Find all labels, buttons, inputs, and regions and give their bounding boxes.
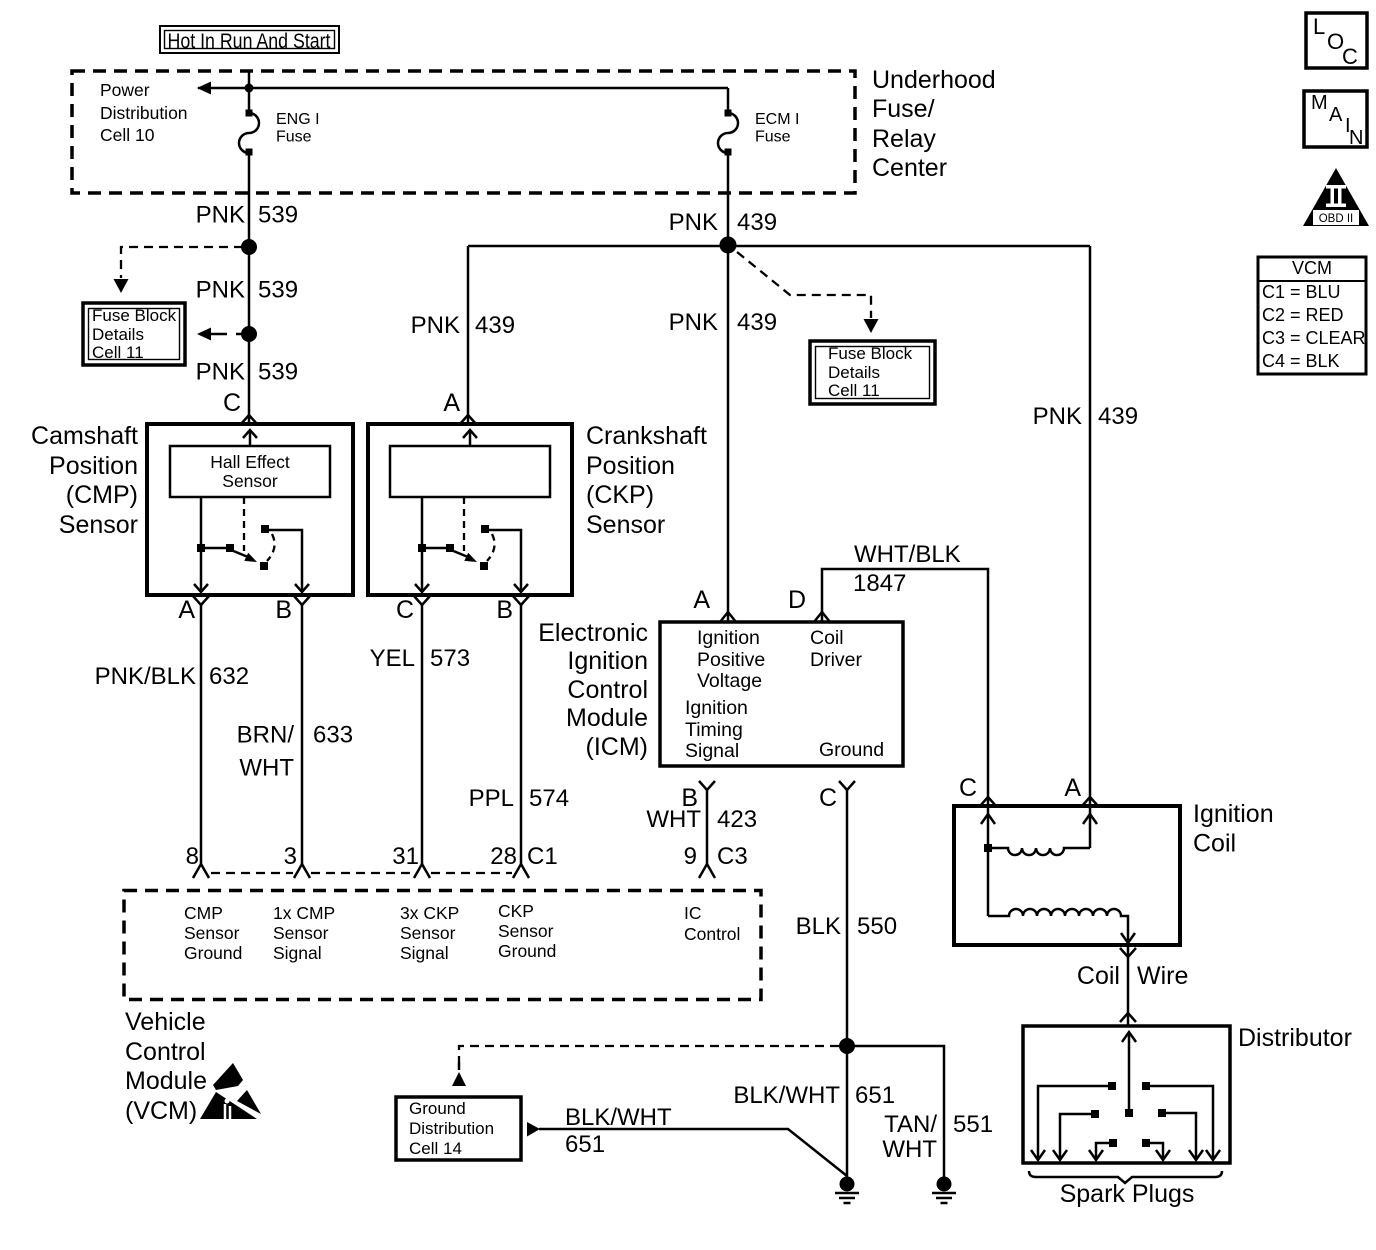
coil secondary winding — [988, 909, 1128, 941]
svg-text:PNK: PNK — [196, 277, 245, 304]
svg-text:Cell 14: Cell 14 — [409, 1139, 462, 1158]
CKP switch contacts — [418, 525, 495, 570]
svg-text:C1: C1 — [527, 843, 558, 870]
svg-text:Signal: Signal — [400, 943, 449, 963]
svg-text:439: 439 — [1098, 403, 1138, 430]
wire WHT 423 ICM B to VCM pin 9 — [706, 790, 709, 864]
svg-text:Sensor: Sensor — [273, 923, 329, 943]
spark plugs brace — [1029, 1171, 1222, 1183]
svg-text:CKP: CKP — [498, 901, 534, 921]
svg-text:BLK/WHT: BLK/WHT — [565, 1104, 672, 1131]
svg-text:PNK: PNK — [669, 209, 718, 236]
svg-text:Voltage: Voltage — [697, 670, 762, 692]
label Power Distribution Cell 10 — [100, 80, 188, 145]
svg-text:Details: Details — [828, 363, 880, 382]
wire ECM fuse down to ICM terminal A — [727, 155, 730, 622]
svg-text:Sensor: Sensor — [222, 471, 278, 491]
distributor rotor feed arrow — [1122, 1032, 1136, 1117]
label PNK 539 (3) — [196, 359, 298, 386]
distributor cap contact lower-left — [1089, 1139, 1117, 1160]
svg-text:439: 439 — [737, 209, 777, 236]
connector chevron pin 8 — [193, 864, 209, 878]
coil secondary output arrow — [1121, 933, 1135, 943]
svg-text:539: 539 — [258, 359, 298, 386]
wire drop to CKP sensor — [467, 246, 470, 424]
wire dashed branch to fuse block details (right) — [737, 252, 879, 333]
svg-text:1847: 1847 — [853, 570, 906, 597]
svg-text:Sensor: Sensor — [184, 923, 240, 943]
ICM pin function labels — [685, 627, 884, 762]
CKP pickup box — [390, 446, 550, 497]
connector chevron at VCM pin 9 — [699, 864, 715, 878]
svg-text:(CKP): (CKP) — [586, 481, 654, 509]
label Crankshaft Position (CKP) Sensor — [586, 422, 707, 539]
svg-text:PNK: PNK — [411, 312, 460, 339]
svg-text:Ground: Ground — [819, 739, 884, 761]
distributor cap contact upper-right — [1142, 1082, 1220, 1160]
connector chevron B — [294, 596, 310, 605]
label Vehicle Control Module (VCM) — [125, 1008, 207, 1125]
svg-text:439: 439 — [737, 309, 777, 336]
wire PNK 539 ENG fuse to CMP sensor — [248, 155, 251, 424]
label BLK 550 — [796, 913, 897, 940]
connector chevron C at CMP — [241, 415, 257, 424]
connector chevron at distributor — [1120, 1013, 1136, 1022]
label TAN/WHT 551 — [882, 1111, 993, 1163]
fuse block details cell 11 box (right) — [810, 341, 935, 404]
svg-text:Spark Plugs: Spark Plugs — [1060, 1180, 1195, 1208]
svg-text:Center: Center — [872, 154, 947, 182]
arrow from ground distribution box — [527, 1122, 540, 1137]
wire CKP C to pin 31 — [421, 605, 424, 864]
svg-text:PNK: PNK — [196, 202, 245, 229]
label PPL 574 — [469, 785, 569, 812]
svg-text:Sensor: Sensor — [59, 511, 138, 539]
svg-text:8: 8 — [186, 843, 199, 870]
label WHT/BLK 1847 — [853, 541, 961, 597]
node junction PNK539 upper — [241, 239, 257, 255]
connector chevron A — [193, 596, 209, 605]
svg-text:28: 28 — [490, 843, 517, 870]
svg-text:N: N — [1349, 127, 1363, 149]
svg-text:539: 539 — [258, 277, 298, 304]
svg-text:1x CMP: 1x CMP — [273, 903, 335, 923]
coil C internal arrow — [981, 808, 995, 916]
svg-text:VCM: VCM — [1292, 258, 1332, 278]
distributor cap contact upper-left — [1031, 1082, 1116, 1160]
wire drop to ECM fuse — [727, 88, 730, 110]
svg-text:ECM I: ECM I — [755, 111, 799, 128]
svg-text:Fuse: Fuse — [755, 129, 791, 146]
connector chevron D at ICM — [814, 612, 830, 622]
connector chevron pin 3 — [294, 864, 310, 878]
svg-text:Ground: Ground — [184, 943, 242, 963]
svg-text:Underhood: Underhood — [872, 66, 996, 94]
svg-text:Sensor: Sensor — [400, 923, 456, 943]
connector chevron C — [414, 596, 430, 605]
svg-text:Power: Power — [100, 80, 150, 100]
svg-text:Control: Control — [125, 1038, 206, 1066]
svg-text:Driver: Driver — [810, 649, 863, 671]
node coil primary tap — [984, 844, 992, 852]
svg-text:573: 573 — [430, 645, 470, 672]
svg-text:Electronic: Electronic — [538, 619, 648, 647]
svg-text:31: 31 — [392, 843, 419, 870]
CMP internal wire B — [269, 530, 309, 592]
ground symbol G103 — [835, 1177, 859, 1204]
connector chevron A at ICM — [720, 612, 736, 622]
svg-text:(CMP): (CMP) — [66, 481, 138, 509]
label Coil Wire — [1077, 962, 1188, 990]
svg-text:C4 = BLK: C4 = BLK — [1262, 351, 1340, 371]
label BLK/WHT 651 (upper) — [733, 1082, 895, 1109]
label PNK 539 (2) — [196, 277, 298, 304]
distributor cap contact lower-right — [1142, 1139, 1170, 1160]
svg-text:Sensor: Sensor — [498, 921, 554, 941]
wire feed drop to ENG fuse — [248, 71, 251, 110]
wire BLK 550 ICM C to ground — [846, 790, 849, 1178]
connector chevron C below ICM — [839, 781, 855, 790]
distributor box — [1023, 1026, 1230, 1163]
node top bus / ENG drop — [245, 84, 254, 93]
CMP switch contacts — [197, 525, 275, 570]
wire CMP B to pin 3 — [301, 605, 304, 864]
svg-text:651: 651 — [565, 1131, 605, 1158]
underhood fuse/relay center dashed box — [72, 71, 855, 193]
hall effect sensor box — [170, 446, 330, 497]
connector chevron B2 — [513, 596, 529, 605]
svg-text:C3 = CLEAR: C3 = CLEAR — [1262, 328, 1366, 348]
svg-text:YEL: YEL — [370, 645, 415, 672]
label PNK 439 (CKP drop) — [411, 312, 515, 339]
svg-text:551: 551 — [953, 1111, 993, 1138]
svg-text:Details: Details — [92, 325, 144, 344]
LOC legend box — [1306, 13, 1367, 69]
CMP sensor box — [147, 424, 353, 595]
svg-text:Ignition: Ignition — [697, 627, 760, 649]
svg-text:Cell 11: Cell 11 — [92, 343, 144, 362]
svg-text:Crankshaft: Crankshaft — [586, 422, 707, 450]
fuse ECM I — [718, 110, 799, 156]
svg-text:Coil: Coil — [1193, 830, 1236, 858]
svg-text:L: L — [1313, 14, 1325, 39]
svg-text:C3: C3 — [717, 843, 748, 870]
label PNK 439 (ICM drop) — [669, 309, 777, 336]
wire dashed branch to fuse block details (left) — [114, 247, 244, 293]
svg-text:WHT: WHT — [239, 755, 294, 782]
fuse ENG I — [239, 110, 320, 156]
VCM dashed box — [124, 891, 761, 1000]
CKP sensor box — [368, 424, 572, 595]
label PNK/BLK 632 — [95, 663, 249, 690]
svg-text:633: 633 — [313, 722, 353, 749]
svg-text:PNK: PNK — [669, 309, 718, 336]
CMP supply arrow inside — [243, 430, 257, 446]
node junction PNK539 lower — [241, 326, 257, 342]
label BLK/WHT 651 (lower) — [565, 1104, 672, 1158]
svg-text:Hall Effect: Hall Effect — [210, 452, 290, 472]
fuse block details cell 11 box (left) — [83, 303, 185, 365]
wire coil to distributor — [1127, 945, 1130, 1026]
svg-text:Coil: Coil — [810, 627, 844, 649]
svg-text:Module: Module — [566, 704, 648, 732]
distributor cap contact mid-right — [1158, 1109, 1203, 1160]
svg-text:(ICM): (ICM) — [586, 733, 648, 761]
svg-text:Sensor: Sensor — [586, 511, 665, 539]
svg-text:Ignition: Ignition — [1193, 800, 1274, 828]
svg-text:3x CKP: 3x CKP — [400, 903, 459, 923]
label BRN/WHT 633 — [237, 722, 353, 782]
svg-text:Distribution: Distribution — [100, 103, 188, 123]
connector chevron C at coil — [980, 797, 996, 806]
svg-text:Coil: Coil — [1077, 962, 1120, 990]
MAIN legend box — [1304, 91, 1367, 149]
svg-text:C: C — [223, 389, 241, 417]
svg-text:Distributor: Distributor — [1238, 1024, 1352, 1052]
svg-text:439: 439 — [475, 312, 515, 339]
VCM pin function labels — [184, 901, 740, 963]
svg-text:651: 651 — [855, 1082, 895, 1109]
connector chevron pin 28 — [513, 864, 529, 878]
svg-text:B: B — [275, 596, 292, 624]
ground distribution cell 14 box — [396, 1097, 521, 1160]
svg-text:BRN/: BRN/ — [237, 722, 295, 749]
svg-text:Hot In Run And Start: Hot In Run And Start — [168, 30, 331, 53]
label PNK 439 (below ECM fuse) — [669, 209, 777, 236]
svg-text:Positive: Positive — [697, 649, 765, 671]
svg-text:550: 550 — [857, 913, 897, 940]
svg-text:539: 539 — [258, 202, 298, 229]
svg-text:IC: IC — [684, 903, 702, 923]
svg-text:CMP: CMP — [184, 903, 223, 923]
svg-text:Ignition: Ignition — [685, 697, 748, 719]
svg-text:Position: Position — [586, 452, 675, 480]
svg-text:C: C — [819, 784, 837, 812]
svg-text:Signal: Signal — [273, 943, 322, 963]
svg-text:Module: Module — [125, 1067, 207, 1095]
svg-text:Cell 11: Cell 11 — [828, 381, 880, 400]
svg-text:Ground: Ground — [498, 941, 556, 961]
distributor cap contact mid-left — [1053, 1110, 1099, 1160]
svg-text:Fuse: Fuse — [276, 129, 312, 146]
label Electronic Ignition Control Module (ICM) — [538, 619, 648, 761]
svg-text:Wire: Wire — [1137, 962, 1188, 990]
svg-text:A: A — [1064, 774, 1081, 802]
svg-text:Fuse Block: Fuse Block — [92, 306, 177, 325]
svg-text:9: 9 — [684, 843, 697, 870]
svg-text:WHT: WHT — [646, 806, 701, 833]
node junction PNK439 — [720, 237, 737, 254]
svg-text:A: A — [443, 389, 460, 417]
svg-text:C1 = BLU: C1 = BLU — [1262, 282, 1341, 302]
svg-text:(VCM): (VCM) — [125, 1097, 197, 1125]
wire CMP A to pin 8 — [200, 605, 203, 864]
svg-text:M: M — [1311, 92, 1328, 114]
label WHT 423 — [646, 806, 757, 833]
connector C1 dashed line — [211, 872, 512, 874]
svg-text:Ground: Ground — [409, 1099, 466, 1118]
CKP supply arrow inside — [463, 430, 477, 446]
connector chevron pin 31 — [414, 864, 430, 878]
wire horizontal PNK439 branch — [468, 245, 1090, 248]
coil primary winding — [988, 848, 1090, 855]
CMP internal wire A — [194, 497, 208, 592]
hot-in-run-and-start box — [160, 26, 339, 53]
svg-text:574: 574 — [529, 785, 569, 812]
svg-text:WHT: WHT — [882, 1136, 937, 1163]
svg-text:D: D — [788, 586, 806, 614]
svg-text:C: C — [959, 774, 977, 802]
svg-text:Timing: Timing — [685, 719, 743, 741]
svg-text:Relay: Relay — [872, 125, 936, 153]
svg-text:PNK: PNK — [196, 359, 245, 386]
connector chevron A at coil — [1082, 797, 1098, 806]
svg-text:ENG I: ENG I — [276, 111, 320, 128]
svg-text:3: 3 — [284, 843, 297, 870]
wire top horizontal bus — [198, 87, 728, 90]
wire drop to ignition coil A — [1089, 246, 1092, 806]
label PNK 539 (1) — [196, 202, 298, 229]
ESD sensitive symbol — [200, 1063, 263, 1120]
svg-text:Camshaft: Camshaft — [31, 422, 138, 450]
ground symbol G102 — [932, 1177, 956, 1204]
svg-text:PPL: PPL — [469, 785, 514, 812]
wire CKP B to pin 28 — [520, 605, 523, 864]
svg-text:PNK: PNK — [1033, 403, 1082, 430]
svg-text:C: C — [396, 596, 414, 624]
svg-text:C2 = RED: C2 = RED — [1262, 305, 1344, 325]
label PNK 439 (coil drop) — [1033, 403, 1138, 430]
wire WHT/BLK 1847 ICM D to coil C — [822, 569, 988, 806]
svg-text:Distribution: Distribution — [409, 1119, 494, 1138]
connector chevron B below ICM — [699, 781, 715, 790]
coil A internal arrow — [1083, 808, 1097, 848]
OBD II symbol — [1303, 168, 1369, 226]
label YEL 573 — [370, 645, 470, 672]
node BLK550/ground junction — [839, 1038, 855, 1054]
wire dashed arrow to fuse block details — [197, 328, 243, 341]
svg-text:Signal: Signal — [685, 740, 739, 762]
svg-text:WHT/BLK: WHT/BLK — [854, 541, 961, 568]
svg-text:632: 632 — [209, 663, 249, 690]
svg-text:A: A — [693, 586, 710, 614]
label Ignition Coil — [1193, 800, 1274, 858]
VCM connector legend table — [1258, 257, 1366, 374]
svg-text:Cell 10: Cell 10 — [100, 125, 155, 145]
svg-text:423: 423 — [717, 806, 757, 833]
pin 9 / C3 labels — [684, 843, 748, 870]
CMP internal dashed hall link — [243, 497, 245, 551]
arrow to power distribution — [197, 82, 211, 95]
svg-text:TAN/: TAN/ — [884, 1111, 937, 1138]
CKP internal dashed link — [463, 497, 465, 551]
svg-text:Fuse/: Fuse/ — [872, 95, 935, 123]
svg-text:Control: Control — [684, 924, 740, 944]
svg-text:A: A — [1329, 104, 1343, 126]
svg-text:Fuse Block: Fuse Block — [828, 344, 913, 363]
svg-text:A: A — [178, 596, 195, 624]
svg-text:B: B — [496, 596, 513, 624]
wire TAN/WHT 551 branch — [847, 1046, 944, 1177]
connector chevron below coil — [1120, 948, 1136, 957]
wire dashed ground distribution branch — [452, 1046, 839, 1086]
ICM box — [660, 622, 903, 766]
CKP internal wire C — [415, 497, 429, 592]
label Underhood Fuse/Relay Center — [872, 66, 996, 182]
svg-text:Control: Control — [567, 676, 648, 704]
svg-text:BLK/WHT: BLK/WHT — [733, 1082, 840, 1109]
svg-text:Position: Position — [49, 452, 138, 480]
connector chevron A at CKP — [460, 415, 476, 424]
svg-text:C: C — [1342, 44, 1358, 69]
CKP internal wire B — [489, 530, 528, 592]
wire BLK/WHT 651 to ground — [539, 1129, 847, 1176]
svg-text:PNK/BLK: PNK/BLK — [95, 663, 196, 690]
svg-text:OBD II: OBD II — [1319, 213, 1354, 225]
svg-text:Ignition: Ignition — [567, 647, 648, 675]
svg-text:BLK: BLK — [796, 913, 841, 940]
ignition coil box — [954, 806, 1180, 945]
svg-text:Vehicle: Vehicle — [125, 1008, 206, 1036]
label Camshaft Position (CMP) Sensor — [31, 422, 138, 539]
